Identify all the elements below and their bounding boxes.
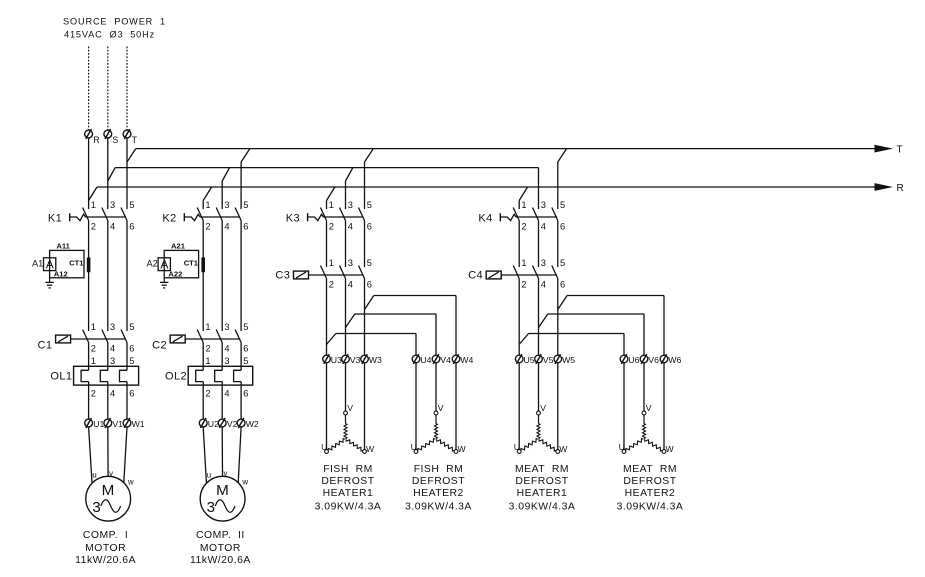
overload relay OL2 box xyxy=(188,366,253,385)
heater node W (W3) xyxy=(363,450,367,454)
wire U2 to motor U xyxy=(203,427,206,482)
svg-text:1: 1 xyxy=(205,200,210,210)
motor M2 body xyxy=(200,476,245,521)
wire C3 pole 2 to heater terminal xyxy=(326,279,328,356)
heater element W leg xyxy=(437,439,455,451)
svg-text:2: 2 xyxy=(91,388,96,398)
svg-text:A: A xyxy=(160,257,168,271)
svg-text:1: 1 xyxy=(521,200,526,210)
contactor K1 linkage xyxy=(70,214,126,220)
svg-text:5: 5 xyxy=(367,258,372,268)
svg-text:U4: U4 xyxy=(420,355,431,365)
terminal U6 xyxy=(620,354,628,364)
wire bus S xyxy=(115,167,538,169)
terminal V4 xyxy=(432,354,440,364)
contactor K1 pole blade 5-6 xyxy=(121,208,127,221)
overload relay OL1 heater element pole 3 xyxy=(120,370,128,381)
wire S bus end corner down to K4 pole 3 xyxy=(538,168,540,209)
wire C4 pole 6 to heater terminal xyxy=(557,279,559,356)
heater element U leg xyxy=(328,439,345,451)
svg-text:3: 3 xyxy=(541,258,546,268)
terminal W4 xyxy=(452,354,460,364)
svg-text:C1: C1 xyxy=(38,340,53,352)
svg-text:SOURCE POWER 1: SOURCE POWER 1 xyxy=(63,17,166,27)
contactor K4 pole blade 5-6 xyxy=(552,208,558,221)
svg-text:A: A xyxy=(46,257,54,271)
terminal W5 xyxy=(554,354,562,364)
svg-text:6: 6 xyxy=(367,221,372,231)
terminal W2 xyxy=(237,418,245,428)
contactor K3 pole blade 5-6 xyxy=(359,208,365,221)
contactor K3 pole blade 1-2 xyxy=(321,208,327,221)
wire jog T source to T bus xyxy=(127,149,136,162)
svg-text:A11: A11 xyxy=(56,242,70,251)
svg-text:6: 6 xyxy=(243,343,248,353)
wire heater4 phase 0 branch drop xyxy=(623,334,625,356)
svg-text:COMP. II: COMP. II xyxy=(196,530,245,541)
contactor C2 pole blade 1-2 xyxy=(197,330,203,343)
svg-text:5: 5 xyxy=(243,356,248,366)
contactor K2 linkage xyxy=(184,214,240,220)
contactor K1 pole blade 3-4 xyxy=(102,208,108,221)
terminal V2 xyxy=(218,418,226,428)
svg-text:3: 3 xyxy=(110,200,115,210)
svg-text:5: 5 xyxy=(129,356,134,366)
svg-text:V1: V1 xyxy=(112,419,123,429)
svg-text:1: 1 xyxy=(329,258,334,268)
wire heater2 phase 0 branch horizontal xyxy=(336,333,416,335)
wire C4 pole 4 to heater terminal xyxy=(538,279,540,356)
overload relay OL2 heater element pole 3 xyxy=(234,370,242,381)
svg-text:6: 6 xyxy=(560,221,565,231)
wire OL2 pole 4 to motor terminal xyxy=(221,382,223,419)
svg-text:5: 5 xyxy=(560,258,565,268)
wire heater2 phase 1 branch drop xyxy=(435,314,437,355)
wire U3 to heater U node xyxy=(326,363,328,450)
svg-text:5: 5 xyxy=(243,322,248,332)
svg-text:K2: K2 xyxy=(162,212,176,224)
wire W4 to heater W node xyxy=(455,363,457,450)
svg-text:6: 6 xyxy=(129,343,134,353)
current transformer CT1 primary bar xyxy=(87,258,91,273)
svg-text:W2: W2 xyxy=(246,419,259,429)
svg-text:C2: C2 xyxy=(152,340,167,352)
wire C2 pole 6 to overload xyxy=(240,343,242,371)
wire heater2 phase 1 branch jog xyxy=(346,314,355,328)
wire heater4 phase 0 branch horizontal xyxy=(529,333,625,335)
wire K4 pole 4 down xyxy=(538,221,540,268)
svg-text:W4: W4 xyxy=(460,355,473,365)
wire W1 to motor W xyxy=(124,427,127,483)
svg-text:2: 2 xyxy=(329,221,334,231)
wire K1 pole 2 down xyxy=(88,221,90,332)
svg-text:FISH RM: FISH RM xyxy=(323,464,373,475)
svg-text:6: 6 xyxy=(243,221,248,231)
contactor C4 pole blade 1-2 xyxy=(513,266,519,279)
svg-text:6: 6 xyxy=(243,388,248,398)
heater element U leg xyxy=(521,439,538,451)
wire C3 pole 6 to heater terminal xyxy=(364,279,366,356)
wire phase T to K1 xyxy=(126,138,128,209)
contactor coil C1 box xyxy=(56,335,71,343)
heater node V (V4) xyxy=(434,411,438,415)
heater node V (V6) xyxy=(642,411,646,415)
svg-text:3: 3 xyxy=(348,258,353,268)
wire OL2 pole 6 to motor terminal xyxy=(240,382,242,419)
wire T bus tap to K3 pole 5 xyxy=(365,149,374,209)
terminal U5 xyxy=(515,354,523,364)
motor M1 body xyxy=(86,476,131,521)
contactor C2 pole blade 5-6 xyxy=(235,330,241,343)
wire K3 pole 4 down xyxy=(345,221,347,268)
svg-text:2: 2 xyxy=(329,279,334,289)
contactor C4 pole blade 3-4 xyxy=(533,266,539,279)
svg-text:3: 3 xyxy=(224,200,229,210)
svg-text:V: V xyxy=(438,403,444,413)
wire U6 to heater U node xyxy=(623,363,625,450)
svg-text:415VAC Ø3 50Hz: 415VAC Ø3 50Hz xyxy=(64,29,155,39)
svg-text:MOTOR: MOTOR xyxy=(200,543,241,554)
wire C1 pole 4 to overload xyxy=(107,343,109,371)
wire bus T xyxy=(136,148,875,150)
current transformer CT1 box xyxy=(50,250,84,277)
svg-text:DEFROST: DEFROST xyxy=(412,476,465,487)
wire S bus tap to K3 pole 3 xyxy=(346,168,353,209)
wire C4 pole 2 to heater terminal xyxy=(518,279,520,356)
contactor C4 pole blade 5-6 xyxy=(552,266,558,279)
svg-text:4: 4 xyxy=(110,221,115,231)
overload relay OL1 heater element pole 2 xyxy=(100,370,108,381)
heater node U (U6) xyxy=(622,450,626,454)
wire W2 to motor W xyxy=(238,427,241,483)
contactor C3 pole blade 3-4 xyxy=(340,266,346,279)
wire heater2 phase 0 branch drop xyxy=(415,334,417,356)
ammeter A2 box xyxy=(158,257,170,271)
wire K4 pole 6 down xyxy=(557,221,559,268)
ammeter A1 box xyxy=(44,257,56,271)
wire W3 to heater W node xyxy=(364,363,366,450)
svg-text:4: 4 xyxy=(541,221,546,231)
wire bus R xyxy=(97,186,875,188)
svg-text:K3: K3 xyxy=(286,212,300,224)
contactor K2 pole blade 1-2 xyxy=(197,208,203,221)
svg-text:U1: U1 xyxy=(93,419,104,429)
heater element V leg xyxy=(344,415,347,439)
svg-text:3: 3 xyxy=(224,322,229,332)
svg-text:6: 6 xyxy=(560,279,565,289)
heater node W (W6) xyxy=(662,450,666,454)
wire heater4 phase 2 branch horizontal xyxy=(567,295,664,297)
svg-text:5: 5 xyxy=(129,322,134,332)
wire incoming source phase S (dashed) xyxy=(107,47,109,131)
svg-text:4: 4 xyxy=(224,221,229,231)
wire heater4 phase 2 branch jog xyxy=(558,296,567,310)
terminal U1 xyxy=(85,418,93,428)
svg-text:DEFROST: DEFROST xyxy=(623,476,676,487)
svg-text:OL1: OL1 xyxy=(50,370,72,382)
wire R bus tap to K3 pole 1 xyxy=(327,187,335,209)
wire V1 to motor V xyxy=(107,427,109,476)
contactor K1 pole blade 1-2 xyxy=(83,208,89,221)
wire V5 to heater V node xyxy=(538,363,540,411)
wire C2 pole 2 to overload xyxy=(202,343,204,371)
heater element V leg xyxy=(643,415,646,439)
svg-text:3: 3 xyxy=(110,356,115,366)
svg-text:R: R xyxy=(897,183,904,194)
wire U1 to motor U xyxy=(89,427,92,482)
svg-text:U5: U5 xyxy=(524,355,535,365)
heater node V (V5) xyxy=(537,411,541,415)
wire K4 pole 2 down xyxy=(518,221,520,268)
svg-text:A1: A1 xyxy=(32,259,43,269)
heater node U (U3) xyxy=(325,450,329,454)
wire C1 pole 6 to overload xyxy=(126,343,128,371)
svg-text:3.09KW/4.3A: 3.09KW/4.3A xyxy=(315,501,382,512)
svg-text:OL2: OL2 xyxy=(165,370,187,382)
heater node U (U5) xyxy=(517,450,521,454)
contactor K4 pole blade 3-4 xyxy=(533,208,539,221)
wire heater2 phase 1 branch horizontal xyxy=(355,313,436,315)
wire heater2 phase 2 branch drop xyxy=(455,296,457,356)
svg-text:2: 2 xyxy=(521,221,526,231)
svg-text:3.09KW/4.3A: 3.09KW/4.3A xyxy=(405,501,472,512)
contactor C1 pole blade 1-2 xyxy=(83,330,89,343)
svg-text:DEFROST: DEFROST xyxy=(515,476,568,487)
heater caption HEATER1 xyxy=(509,464,576,512)
svg-text:6: 6 xyxy=(367,279,372,289)
current transformer CT2 primary bar xyxy=(201,258,205,273)
overload relay OL2 heater element pole 1 xyxy=(196,370,204,381)
svg-text:K4: K4 xyxy=(478,212,492,224)
ground of CT1 xyxy=(45,278,53,288)
svg-text:V6: V6 xyxy=(648,355,659,365)
terminal S xyxy=(104,129,112,139)
contactor C3 pole blade 1-2 xyxy=(321,266,327,279)
contactor K3 pole blade 3-4 xyxy=(340,208,346,221)
svg-text:W6: W6 xyxy=(668,355,681,365)
wire K3 pole 6 down xyxy=(364,221,366,268)
svg-text:V: V xyxy=(646,403,652,413)
wire heater4 phase 1 branch jog xyxy=(539,314,548,328)
contactor K1 actuator tick xyxy=(69,213,71,221)
contactor C1 linkage xyxy=(71,338,126,340)
svg-text:4: 4 xyxy=(110,388,115,398)
wire K3 pole 2 down xyxy=(326,221,328,268)
wire incoming source phase R (dashed) xyxy=(88,47,90,131)
wire C1 pole 2 to overload xyxy=(88,343,90,371)
wire V4 to heater V node xyxy=(435,363,437,411)
svg-text:1: 1 xyxy=(329,200,334,210)
terminal T xyxy=(123,129,131,139)
svg-text:w: w xyxy=(127,478,134,487)
heater node W (W5) xyxy=(556,450,560,454)
bus R arrow xyxy=(875,183,894,191)
svg-text:V2: V2 xyxy=(227,419,238,429)
ground of CT2 xyxy=(160,278,168,288)
svg-text:3: 3 xyxy=(110,322,115,332)
wire C3 pole 4 to heater terminal xyxy=(345,279,347,356)
svg-text:11kW/20.6A: 11kW/20.6A xyxy=(190,555,251,566)
contactor K2 pole blade 5-6 xyxy=(235,208,241,221)
terminal U2 xyxy=(199,418,207,428)
svg-text:MOTOR: MOTOR xyxy=(85,543,126,554)
svg-text:3: 3 xyxy=(348,200,353,210)
wire R bus tap to K4 pole 1 xyxy=(519,187,527,209)
contactor C2 linkage xyxy=(185,338,240,340)
contactor K4 actuator tick xyxy=(499,213,501,221)
svg-text:M: M xyxy=(102,482,115,499)
wire K1 pole 4 down xyxy=(107,221,109,332)
svg-text:T: T xyxy=(132,135,138,145)
svg-text:5: 5 xyxy=(560,200,565,210)
svg-text:6: 6 xyxy=(129,388,134,398)
svg-text:W: W xyxy=(666,444,675,454)
wire V2 to motor V xyxy=(221,427,223,476)
svg-text:U6: U6 xyxy=(628,355,639,365)
svg-text:4: 4 xyxy=(110,343,115,353)
terminal V3 xyxy=(342,354,350,364)
contactor K3 linkage xyxy=(308,214,364,220)
overload relay OL1 box xyxy=(74,366,139,385)
heater node W (W4) xyxy=(454,450,458,454)
svg-text:2: 2 xyxy=(205,388,210,398)
wire heater2 phase 2 branch horizontal xyxy=(374,295,456,297)
terminal V6 xyxy=(640,354,648,364)
svg-text:3.09KW/4.3A: 3.09KW/4.3A xyxy=(509,501,576,512)
svg-text:4: 4 xyxy=(348,279,353,289)
wire U5 to heater U node xyxy=(518,363,520,450)
svg-text:1: 1 xyxy=(91,356,96,366)
heater caption HEATER2 xyxy=(405,464,472,512)
svg-text:W: W xyxy=(559,444,568,454)
wire heater4 phase 1 branch horizontal xyxy=(548,313,644,315)
svg-text:V: V xyxy=(347,403,353,413)
wire jog R source to R bus xyxy=(89,187,97,201)
wire heater4 phase 2 branch drop xyxy=(663,296,665,356)
svg-text:2: 2 xyxy=(91,343,96,353)
svg-text:6: 6 xyxy=(129,221,134,231)
svg-text:C4: C4 xyxy=(468,270,483,282)
svg-text:W: W xyxy=(366,444,375,454)
svg-text:W3: W3 xyxy=(369,355,382,365)
wire W5 to heater W node xyxy=(557,363,559,450)
motor M1 caption xyxy=(75,530,136,566)
svg-text:R: R xyxy=(93,135,99,145)
svg-text:DEFROST: DEFROST xyxy=(321,476,374,487)
svg-text:3: 3 xyxy=(541,200,546,210)
svg-text:COMP. I: COMP. I xyxy=(83,530,128,541)
heater element W leg xyxy=(645,439,663,451)
wire S bus tap to K2 pole 3 xyxy=(222,168,229,209)
svg-text:A21: A21 xyxy=(171,242,186,251)
contactor coil C2 box xyxy=(170,335,185,343)
svg-text:CT1: CT1 xyxy=(184,258,199,267)
wire jog S source to S bus xyxy=(108,168,115,181)
wire incoming source phase T (dashed) xyxy=(126,47,128,131)
wire phase S to K1 xyxy=(107,138,109,209)
wire K2 pole 6 down xyxy=(240,221,242,332)
wire heater4 phase 0 branch jog xyxy=(519,334,528,345)
svg-text:V5: V5 xyxy=(543,355,554,365)
svg-text:4: 4 xyxy=(224,343,229,353)
wire OL2 pole 2 to motor terminal xyxy=(202,382,204,419)
wire V6 to heater V node xyxy=(643,363,645,411)
svg-text:T: T xyxy=(897,145,903,156)
wire OL1 pole 2 to motor terminal xyxy=(88,382,90,419)
wire heater4 phase 1 branch drop xyxy=(643,314,645,355)
svg-text:HEATER1: HEATER1 xyxy=(517,488,568,499)
terminal W3 xyxy=(361,354,369,364)
svg-text:2: 2 xyxy=(91,221,96,231)
heater element V leg xyxy=(435,415,438,439)
svg-text:3: 3 xyxy=(92,499,100,516)
heater caption HEATER1 xyxy=(315,464,382,512)
contactor K2 pole blade 3-4 xyxy=(216,208,222,221)
svg-text:HEATER2: HEATER2 xyxy=(413,488,464,499)
wire R bus tap to K2 pole 1 xyxy=(203,187,211,209)
contactor C3 linkage xyxy=(309,274,364,276)
motor M2 caption xyxy=(190,530,251,566)
heater element U leg xyxy=(626,439,644,451)
wire T bus tap to K4 pole 5 xyxy=(558,149,567,209)
wire V3 to heater V node xyxy=(345,363,347,411)
terminal R xyxy=(85,129,93,139)
terminal W1 xyxy=(123,418,131,428)
svg-text:CT1: CT1 xyxy=(69,258,84,267)
svg-text:3: 3 xyxy=(224,356,229,366)
wire C2 pole 4 to overload xyxy=(221,343,223,371)
contactor C1 pole blade 5-6 xyxy=(121,330,127,343)
terminal U4 xyxy=(412,354,420,364)
svg-text:4: 4 xyxy=(224,388,229,398)
svg-text:1: 1 xyxy=(91,322,96,332)
wire heater2 phase 2 branch jog xyxy=(365,296,374,310)
svg-text:u: u xyxy=(207,470,211,479)
svg-text:2: 2 xyxy=(205,221,210,231)
svg-text:MEAT RM: MEAT RM xyxy=(515,464,569,475)
svg-text:u: u xyxy=(92,470,96,479)
wire heater2 phase 0 branch jog xyxy=(327,334,336,345)
svg-text:W1: W1 xyxy=(132,419,145,429)
svg-text:FISH RM: FISH RM xyxy=(414,464,464,475)
overload relay OL1 heater element pole 1 xyxy=(81,370,89,381)
svg-text:K1: K1 xyxy=(48,212,62,224)
svg-text:MEAT RM: MEAT RM xyxy=(623,464,677,475)
heater element U leg xyxy=(418,439,436,451)
svg-text:2: 2 xyxy=(205,343,210,353)
wire T bus tap to K2 pole 5 xyxy=(241,149,250,209)
contactor K4 pole blade 1-2 xyxy=(513,208,519,221)
svg-text:3: 3 xyxy=(207,499,215,516)
terminal V1 xyxy=(104,418,112,428)
contactor C2 pole blade 3-4 xyxy=(216,330,222,343)
wire W6 to heater W node xyxy=(663,363,665,450)
wire K2 pole 4 down xyxy=(221,221,223,332)
svg-text:W5: W5 xyxy=(562,355,575,365)
contactor coil C3 box xyxy=(294,271,309,279)
contactor K4 linkage xyxy=(500,214,557,220)
heater element W leg xyxy=(346,439,363,451)
heater node U (U4) xyxy=(414,450,418,454)
contactor K3 actuator tick xyxy=(307,213,309,221)
svg-text:S: S xyxy=(112,135,118,145)
wire K2 pole 2 down xyxy=(202,221,204,332)
svg-text:HEATER1: HEATER1 xyxy=(323,488,374,499)
contactor K2 actuator tick xyxy=(183,213,185,221)
svg-text:5: 5 xyxy=(129,200,134,210)
svg-text:2: 2 xyxy=(521,279,526,289)
svg-text:5: 5 xyxy=(367,200,372,210)
